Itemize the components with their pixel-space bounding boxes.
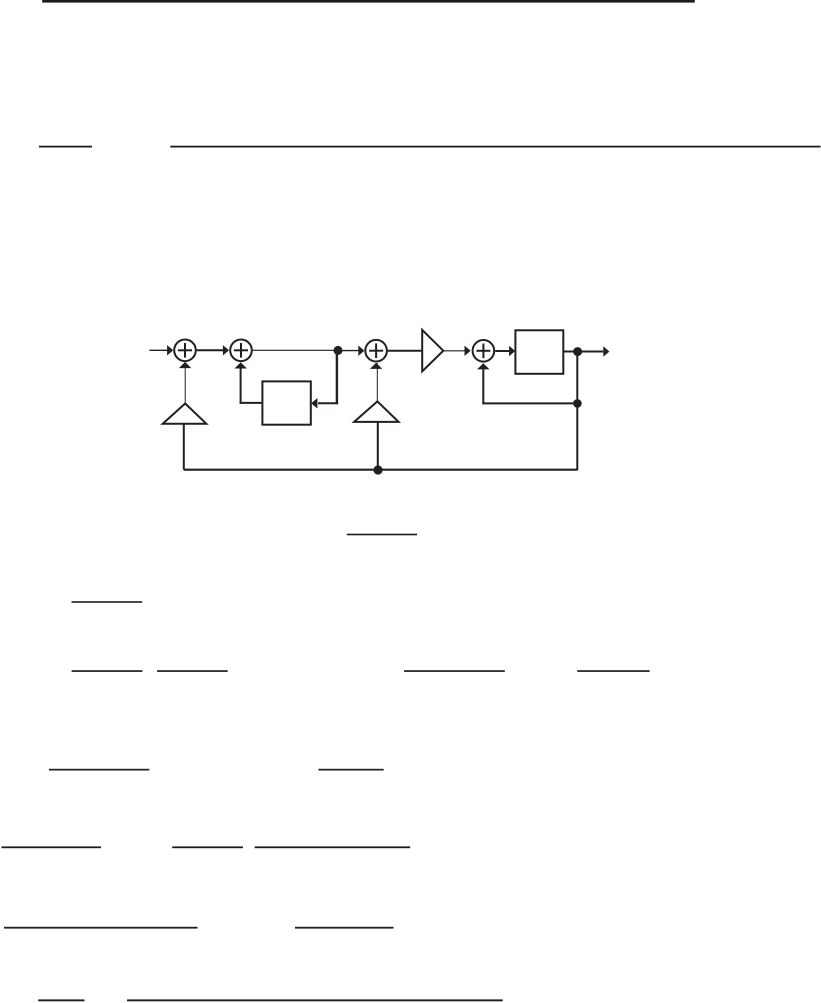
text rule r5b	[157, 670, 228, 672]
text rule r5c	[404, 670, 505, 672]
summing junction S3	[365, 340, 387, 362]
arrowhead output	[603, 346, 609, 356]
arrowhead into S1	[167, 345, 173, 355]
text rule r7b	[172, 846, 243, 848]
arrowhead up into S4	[477, 363, 489, 369]
arrowhead into S3	[358, 346, 364, 356]
wire node C to S4 feedback horizontal	[483, 402, 577, 404]
wire S2 to node A	[253, 349, 338, 351]
text rule r2b	[170, 146, 820, 148]
wire node A to S3	[338, 350, 359, 352]
text rule r9a	[38, 999, 84, 1001]
text rule r6b	[318, 769, 383, 771]
text rule top	[42, 0, 695, 3]
text rule r8b	[295, 927, 394, 929]
gain G1 triangle	[163, 404, 207, 424]
wire node B down	[576, 352, 578, 471]
wire S4 to block B1	[495, 350, 509, 352]
delay block R1	[262, 381, 310, 424]
text rule r9b	[127, 999, 503, 1001]
arrowhead up into S3	[370, 363, 382, 369]
arrowhead up into S2	[235, 362, 247, 368]
wire G1 base down to bottom feedback	[183, 424, 185, 470]
wire feedback vertical up to S4	[482, 369, 484, 405]
gain G2 triangle	[354, 401, 399, 422]
summing junction S2	[230, 340, 252, 362]
wire B1 to output	[563, 351, 603, 353]
arrowhead up into S1	[179, 362, 191, 368]
wire to delay block R1 left	[240, 402, 263, 404]
wire G3 to S4	[443, 350, 465, 352]
wire input	[150, 349, 168, 351]
wire S1 down to gain G1	[184, 363, 186, 404]
node A junction dot	[334, 346, 343, 355]
text rule r4	[72, 601, 143, 603]
block B1	[515, 330, 563, 374]
arrowhead into S2	[223, 345, 229, 355]
text rule r6a	[49, 769, 149, 771]
wire S2 down	[240, 368, 242, 404]
wire S1 to S2	[197, 349, 224, 351]
wire bottom feedback	[184, 469, 578, 471]
text rule r2a	[39, 146, 92, 148]
wire into R1 right	[318, 402, 338, 404]
wire S3 to gain G3	[388, 350, 422, 352]
wire node D up to gain G2	[377, 422, 379, 470]
summing junction S4	[473, 340, 495, 362]
text rule r5a	[72, 670, 143, 672]
wire node A down	[336, 350, 338, 404]
node C junction dot	[573, 399, 582, 408]
text rule r7c	[255, 846, 411, 848]
arrowhead into S4	[465, 346, 471, 356]
wire G2 apex to S3	[376, 363, 378, 401]
arrowhead left into R1	[311, 398, 317, 408]
arrowhead into B1	[509, 346, 515, 356]
text rule r5d	[577, 670, 649, 672]
text rule r7a	[2, 846, 102, 848]
summing junction S1	[174, 340, 196, 362]
gain G3 amplifier triangle	[422, 330, 443, 372]
node D junction dot	[373, 465, 382, 474]
text rule r8a	[4, 927, 198, 929]
text rule r3	[347, 534, 417, 536]
node B junction dot (output)	[573, 347, 582, 356]
